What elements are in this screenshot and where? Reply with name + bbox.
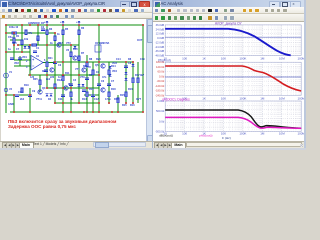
svg-text:C7: C7 — [16, 48, 20, 51]
svg-text:R15: R15 — [120, 94, 125, 97]
wire vert p — [13, 95, 15, 112]
svg-text:C14: C14 — [116, 58, 121, 61]
IC U2 — [95, 45, 101, 52]
svg-text:R5: R5 — [65, 28, 69, 31]
resistor R14 — [108, 70, 110, 75]
svg-text:VT9: VT9 — [80, 76, 85, 79]
capacitor C8 — [124, 66, 128, 67]
svg-text:10K: 10K — [221, 56, 226, 60]
svg-text:2k2: 2k2 — [20, 98, 25, 101]
capacitor C1 — [33, 51, 37, 52]
svg-text:LM958ОИ_ОУ: LM958ОИ_ОУ — [28, 22, 45, 25]
diode D7 — [82, 84, 85, 86]
resistor R23 — [32, 44, 37, 46]
diode D11 — [109, 66, 112, 68]
wire vert i — [78, 25, 80, 103]
loop gain curve (black) — [165, 110, 301, 128]
wire top rail — [6, 24, 143, 26]
transistor Q1 — [57, 43, 61, 47]
diode D12 — [109, 74, 112, 76]
svg-text:+18: +18 — [44, 21, 49, 24]
svg-text:V1: V1 — [9, 71, 13, 74]
svg-text:R12: R12 — [57, 79, 62, 82]
svg-text:VT2: VT2 — [58, 42, 63, 45]
wire feedback vertical — [98, 25, 100, 112]
svg-text:VT8: VT8 — [86, 66, 91, 69]
resistor R12 — [54, 84, 56, 89]
svg-text:C12: C12 — [94, 98, 99, 101]
svg-text:AVOP_дикула ОУ: AVOP_дикула ОУ — [215, 22, 243, 25]
resistor R8 — [86, 62, 88, 67]
diode D3 — [74, 46, 77, 48]
svg-text:C9: C9 — [32, 90, 36, 93]
svg-text:24.0dB: 24.0dB — [155, 27, 164, 31]
svg-text:0.0dB: 0.0dB — [157, 36, 164, 40]
svg-text:C3: C3 — [58, 64, 62, 67]
svg-text:1K: 1K — [202, 56, 206, 60]
capacitor C11 — [61, 95, 65, 96]
svg-text:VT3: VT3 — [66, 42, 71, 45]
wire vert s — [19, 56, 21, 66]
svg-text:1M: 1M — [260, 56, 265, 60]
svg-text:R13: R13 — [89, 88, 94, 91]
wire vert t — [39, 75, 41, 92]
svg-text:-60.0d: -60.0d — [156, 79, 164, 83]
svg-text:GND: GND — [8, 103, 14, 106]
wire op-amp plus input — [14, 59, 31, 61]
svg-text:VT11: VT11 — [36, 98, 42, 101]
svg-text:R14: R14 — [111, 65, 116, 68]
svg-text:60.0d: 60.0d — [157, 70, 164, 74]
svg-text:VD1: VD1 — [22, 56, 27, 59]
resistor R17 — [132, 78, 134, 83]
wire lower mid rail — [55, 102, 99, 104]
svg-text:4k7: 4k7 — [140, 74, 145, 77]
svg-text:100M: 100M — [297, 56, 304, 60]
wire op-amp minus input — [14, 65, 31, 67]
svg-text:V2: V2 — [9, 88, 13, 91]
svg-text:120.0d: 120.0d — [156, 65, 165, 69]
wire bottom rail — [10, 111, 143, 113]
svg-text:dB(v(out)): dB(v(out)) — [159, 133, 173, 137]
wire vert a — [13, 33, 15, 60]
svg-text:ph(ООС); Degrees: ph(ООС); Degrees — [162, 97, 190, 101]
wire rail 9 — [10, 39, 22, 41]
svg-text:+18: +18 — [76, 21, 81, 24]
resistor R5 — [62, 30, 64, 35]
svg-text:VD3: VD3 — [112, 62, 117, 65]
phase pane grid — [165, 61, 301, 63]
resistor R27 — [137, 78, 139, 83]
svg-text:C11: C11 — [58, 98, 63, 101]
resistor R4 — [54, 36, 56, 41]
svg-text:220: 220 — [50, 76, 55, 79]
transistor Q7 — [50, 68, 54, 72]
capacitor C5 — [85, 78, 89, 79]
svg-text:ОУТ: ОУТ — [136, 98, 141, 101]
svg-text:Ph(Avol): Ph(Avol) — [158, 58, 171, 62]
svg-text:C7: C7 — [111, 80, 115, 83]
svg-text:D8: D8 — [128, 58, 132, 61]
svg-text:C1: C1 — [36, 47, 40, 50]
resistor R7 — [78, 56, 80, 61]
capacitor C3 — [53, 62, 57, 63]
wire right branch — [99, 61, 133, 63]
loop phase curve (magenta) — [165, 117, 301, 128]
wire vert f — [54, 33, 56, 103]
svg-text:C10: C10 — [18, 91, 23, 94]
wire rail 6 — [47, 87, 99, 89]
svg-text:100M: 100M — [297, 131, 304, 135]
diode D5 — [50, 94, 53, 96]
capacitor C15 — [18, 58, 22, 59]
resistor R21 — [46, 62, 48, 67]
svg-text:-36.0dB: -36.0dB — [155, 49, 165, 53]
svg-text:VD4: VD4 — [112, 70, 117, 73]
capacitor C10 — [15, 95, 19, 96]
svg-text:V3: V3 — [66, 49, 70, 52]
resistor R10 — [70, 52, 72, 57]
resistor R13 — [86, 92, 88, 97]
svg-text:-12.0dB: -12.0dB — [155, 40, 165, 44]
svg-text:100K: 100K — [239, 56, 246, 60]
svg-text:1M: 1M — [260, 131, 265, 135]
gain pane zero line — [165, 36, 301, 38]
diode D1 — [24, 46, 27, 48]
svg-text:X1: X1 — [36, 55, 40, 58]
wire rail 2 — [6, 32, 55, 34]
capacitor C12 — [91, 95, 95, 96]
phase curve (red) — [165, 66, 301, 91]
wire vert q — [29, 88, 31, 112]
svg-text:1u: 1u — [8, 48, 11, 51]
svg-text:R16: R16 — [130, 104, 135, 107]
svg-text:500.0d: 500.0d — [156, 109, 165, 113]
capacitor C4 — [69, 84, 73, 85]
svg-text:ph(v(out)): ph(v(out)) — [199, 133, 212, 137]
wire rail 8 — [55, 61, 99, 63]
transistor Q4 — [64, 86, 68, 90]
resistor R9 — [92, 70, 94, 75]
svg-text:R21: R21 — [48, 57, 53, 60]
svg-text:OUT: OUT — [137, 39, 143, 42]
capacitor C18 — [10, 58, 14, 59]
resistor R22 — [12, 32, 17, 34]
resistor R11 — [62, 76, 64, 81]
svg-text:1K: 1K — [202, 96, 206, 100]
svg-text:C4: C4 — [73, 79, 77, 82]
svg-text:120: 120 — [30, 76, 35, 79]
svg-text:R8: R8 — [89, 58, 93, 61]
power stub +V c — [46, 21, 48, 25]
resistor R26 — [37, 36, 39, 41]
wire vert l — [108, 62, 110, 103]
resistor R3 — [46, 30, 48, 35]
svg-text:VT7: VT7 — [75, 68, 80, 71]
op-amp U1 — [31, 56, 43, 71]
svg-text:100: 100 — [182, 56, 187, 60]
svg-text:47n: 47n — [102, 76, 107, 79]
loop phase pane grid — [165, 100, 301, 102]
svg-text:R18: R18 — [114, 98, 119, 101]
svg-text:R24: R24 — [96, 58, 101, 61]
svg-text:R30: R30 — [12, 42, 17, 45]
resistor R18 — [108, 92, 110, 97]
transistor Q8 — [82, 68, 86, 72]
phase pane zero line — [165, 76, 301, 78]
svg-text:R1: R1 — [16, 35, 20, 38]
capacitor C7 — [107, 84, 111, 85]
wire rail 4 — [6, 51, 30, 53]
svg-text:8n2: 8n2 — [46, 78, 51, 81]
svg-text:0.0d: 0.0d — [159, 74, 165, 78]
capacitor C17 — [82, 90, 86, 91]
wire vert n — [125, 62, 127, 103]
wire rail 10 — [84, 94, 99, 96]
diode D2 — [28, 46, 31, 48]
svg-text:10M: 10M — [279, 131, 285, 135]
svg-text:10K: 10K — [221, 96, 226, 100]
resistor R28 — [39, 80, 41, 85]
wire vert h — [70, 45, 72, 112]
wire vert r — [137, 62, 139, 103]
svg-text:47k: 47k — [28, 32, 33, 35]
svg-text:100K: 100K — [239, 131, 246, 135]
power stub +V b — [78, 21, 80, 25]
wire vert m — [117, 95, 119, 112]
capacitor C16 — [44, 70, 48, 71]
wire vert b — [21, 25, 23, 52]
svg-text:0.0d: 0.0d — [159, 119, 165, 123]
svg-text:Задержка ООС равна 0,75 мкс: Задержка ООС равна 0,75 мкс — [8, 124, 76, 129]
wire vert d — [37, 25, 39, 45]
svg-text:R11: R11 — [65, 72, 70, 75]
svg-text:VD2: VD2 — [14, 62, 19, 65]
svg-text:100u 10: 100u 10 — [9, 26, 19, 29]
transistor Q5 — [101, 64, 105, 68]
resistor R15 — [117, 98, 119, 103]
svg-text:1M: 1M — [260, 96, 265, 100]
svg-text:C5u: C5u — [8, 36, 13, 39]
svg-text:R19: R19 — [24, 84, 29, 87]
svg-text:R18: R18 — [111, 88, 116, 91]
diode D9 — [125, 78, 128, 80]
wire vert o — [132, 62, 134, 103]
svg-text:R7: R7 — [81, 52, 85, 55]
svg-text:100: 100 — [182, 131, 187, 135]
resistor R6 — [78, 30, 80, 35]
svg-text:10k: 10k — [24, 38, 29, 41]
svg-text:10M: 10M — [279, 96, 285, 100]
svg-text:Q3: Q3 — [42, 87, 46, 90]
wire vert e — [46, 25, 48, 88]
svg-text:12.0dB: 12.0dB — [155, 32, 164, 36]
svg-text:36.0dB: 36.0dB — [155, 23, 164, 27]
capacitor C9 — [28, 95, 32, 96]
svg-text:R13: R13 — [82, 98, 87, 101]
transistor Q2 — [73, 56, 77, 60]
resistor R19 — [21, 88, 23, 93]
svg-text:10K: 10K — [221, 131, 226, 135]
svg-text:100K: 100K — [239, 96, 246, 100]
svg-text:R16: R16 — [128, 88, 133, 91]
resistor R20 — [70, 92, 72, 97]
resistor R16 — [125, 92, 127, 97]
svg-text:R10: R10 — [73, 48, 78, 51]
wire rail 7 — [6, 94, 30, 96]
diode D8 — [125, 72, 128, 74]
svg-text:C19: C19 — [140, 58, 145, 61]
transistor Q3 — [38, 90, 42, 94]
svg-text:1n: 1n — [58, 76, 61, 79]
gain pane grid — [165, 24, 301, 26]
svg-text:Q5: Q5 — [95, 64, 99, 67]
svg-text:1k: 1k — [57, 33, 60, 36]
resistor R29 — [25, 30, 27, 35]
diode D10 — [132, 64, 135, 66]
svg-text:C6: C6 — [101, 80, 105, 83]
wire rail 3 — [18, 44, 79, 46]
wire op-amp output — [43, 62, 55, 64]
svg-text:R3: R3 — [49, 28, 53, 31]
svg-text:6: 6 — [44, 59, 46, 62]
svg-text:D4: D4 — [48, 98, 52, 101]
svg-text:-120.0d: -120.0d — [155, 84, 165, 88]
source V2 — [4, 88, 8, 92]
wire vert j — [86, 55, 88, 112]
svg-text:0.5m: 0.5m — [105, 98, 111, 101]
diode D6 — [78, 84, 81, 86]
capacitor C2 — [41, 29, 45, 30]
svg-text:R6: R6 — [81, 27, 85, 30]
svg-text:R15: R15 — [122, 104, 127, 107]
wire left rail — [5, 25, 7, 113]
wire vert g — [62, 25, 64, 112]
svg-text:1n: 1n — [36, 38, 39, 41]
transistor Q6 — [101, 88, 105, 92]
svg-text:-24.0dB: -24.0dB — [155, 45, 165, 49]
wire right rail — [142, 25, 144, 112]
svg-text:ОУ ДИКУЛА: ОУ ДИКУЛА — [95, 42, 110, 45]
gain curve (blue) — [165, 29, 290, 55]
capacitor C6 — [97, 84, 101, 85]
junction dots — [5, 24, 7, 26]
svg-text:100M: 100M — [297, 96, 304, 100]
resistor R2 — [21, 40, 23, 45]
svg-text:1k: 1k — [70, 98, 73, 101]
svg-text:-180.0d: -180.0d — [155, 89, 165, 93]
source V1 — [4, 73, 9, 78]
svg-text:10M: 10M — [279, 56, 285, 60]
wire vert k — [92, 62, 94, 112]
svg-text:F (Hz): F (Hz) — [222, 136, 231, 140]
diode D4 — [46, 94, 49, 96]
wire rail 5 — [28, 74, 99, 76]
resistor R1 — [13, 38, 15, 43]
svg-text:+18: +18 — [60, 21, 65, 24]
wire vert c — [29, 45, 31, 75]
power stub +V a — [62, 21, 64, 25]
svg-text:3k3: 3k3 — [42, 70, 47, 73]
